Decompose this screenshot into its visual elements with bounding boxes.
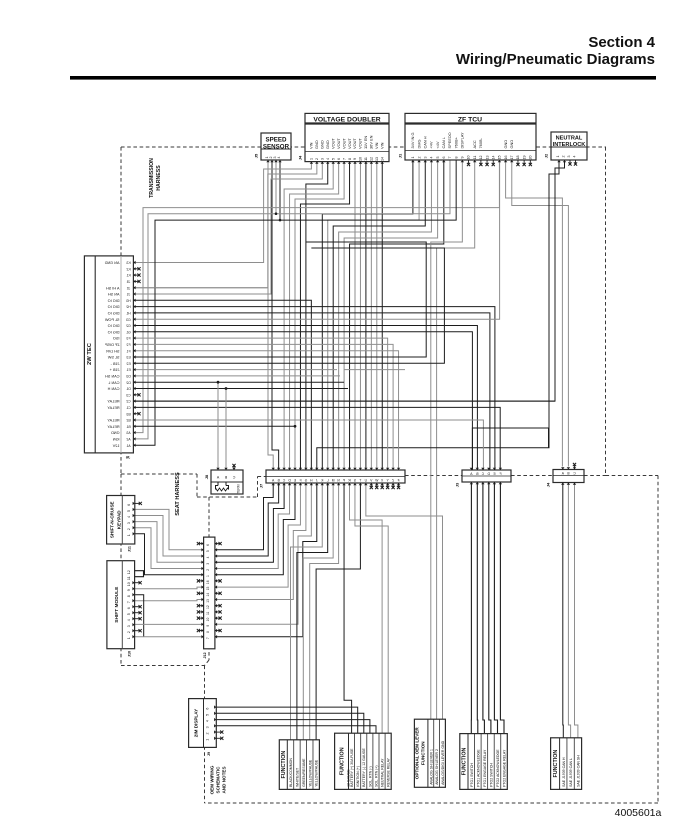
svg-text:8: 8 <box>206 631 210 633</box>
seat harness boundary top <box>121 473 197 475</box>
wire display pin3 to battery table col5 <box>216 726 376 733</box>
wire TCU pin9 wire to lever col1 <box>431 160 463 719</box>
terminated pin 6 on J10 <box>135 605 142 608</box>
wire 2WTEC D1 row wire CAN H <box>133 388 348 390</box>
svg-text:4: 4 <box>277 157 281 159</box>
wire J3 pin2 to PTO table col2 <box>476 482 479 734</box>
wire voltage doubler pin5 wire <box>284 162 333 471</box>
svg-text:Wiring/Pneumatic Diagrams: Wiring/Pneumatic Diagrams <box>456 51 655 68</box>
svg-text:SOL. RTN (+): SOL. RTN (+) <box>374 765 378 786</box>
wire shift module pin1 to J12 row7 <box>135 636 204 638</box>
wire J8 pin A feed <box>217 382 219 470</box>
terminated pin 19 on J1 <box>523 160 526 166</box>
connector J3 <box>455 470 512 487</box>
junction dot <box>294 425 297 428</box>
wire voltage doubler pin11 wire <box>365 162 367 471</box>
svg-text:1: 1 <box>411 157 415 159</box>
svg-text:C1: C1 <box>126 406 130 410</box>
svg-text:16: 16 <box>504 156 508 160</box>
svg-text:J6: J6 <box>125 455 130 460</box>
wire J7 pin13 to table1 col4 <box>310 483 339 740</box>
wire J4 pinC to J1939 table col3 <box>575 483 578 738</box>
transmission harness boundary right <box>605 147 607 476</box>
svg-text:3: 3 <box>206 726 210 728</box>
harness boundary through J11 <box>121 496 123 545</box>
svg-text:36V EN: 36V EN <box>369 135 374 149</box>
svg-text:AN SH: AN SH <box>108 293 120 297</box>
wire keypad pin5 to J12 <box>135 509 204 549</box>
wire display pin6 to battery table col2 <box>216 707 357 733</box>
svg-text:INTERLOCK: INTERLOCK <box>553 142 586 148</box>
oem boundary vertical upper <box>208 497 210 660</box>
svg-text:YELLOW/PAUSE: YELLOW/PAUSE <box>315 759 319 787</box>
svg-text:DMG: DMG <box>416 139 421 148</box>
svg-text:ANALOG SH LEVER 1: ANALOG SH LEVER 1 <box>429 749 433 785</box>
svg-text:10: 10 <box>127 582 131 586</box>
svg-text:15: 15 <box>498 156 502 160</box>
terminated pin 10 on J10 <box>135 581 142 584</box>
oem boundary vertical lower <box>204 666 206 804</box>
svg-text:12 GAUGE: 12 GAUGE <box>347 769 351 787</box>
svg-text:CAN SH: CAN SH <box>105 375 120 379</box>
svg-text:4005601a: 4005601a <box>615 807 662 819</box>
svg-text:RELAY: RELAY <box>107 400 120 404</box>
svg-text:K1: K1 <box>126 274 130 278</box>
wire voltage doubler pin8 wire <box>300 162 349 471</box>
svg-text:FUNCTION: FUNCTION <box>281 751 287 779</box>
terminated pin 6 right on J12 <box>215 542 222 545</box>
terminated pin 10 on J1 <box>467 160 470 166</box>
svg-text:DISPLAY: DISPLAY <box>460 132 465 149</box>
wire speed sensor pin1 to J7 pin1 <box>268 160 273 470</box>
wire 2WTEC D3 row wire <box>133 375 340 377</box>
svg-text:13: 13 <box>485 156 489 160</box>
svg-text:10: 10 <box>206 618 210 622</box>
svg-text:WHITE/SET: WHITE/SET <box>295 767 299 787</box>
svg-text:11V EN: 11V EN <box>363 136 368 149</box>
wire 2WTEC E1 row extension <box>344 369 405 371</box>
wire J7 pin12 to table1 col3 <box>303 483 333 740</box>
svg-text:RELAY: RELAY <box>107 406 120 410</box>
drawing number 4005601a <box>615 807 662 819</box>
wire 2WTEC H2 row wire to J3 pin5 <box>133 307 495 470</box>
svg-text:VIN: VIN <box>374 142 379 149</box>
svg-text:CAN L: CAN L <box>441 136 446 148</box>
wire 2WTEC H1 row wire to J3 pin4 <box>133 313 490 470</box>
transmission harness boundary top <box>121 146 606 148</box>
svg-text:ISO: ISO <box>113 337 120 341</box>
wire 2WTEC G2 row wire to J3 pin2 <box>133 326 477 471</box>
junction dot <box>225 387 228 390</box>
wire voltage doubler pin2 wire <box>133 162 316 288</box>
terminated pin on J7 <box>370 483 373 489</box>
wire voltage doubler pin12 wire <box>370 162 372 471</box>
terminated pin 12 left on J12 <box>197 604 204 607</box>
terminated pin 10 left on J12 <box>197 617 204 620</box>
svg-text:SH LVR: SH LVR <box>106 349 120 353</box>
terminated pin 6 on J11 <box>135 502 142 505</box>
wire voltage doubler pin7 wire <box>295 162 344 471</box>
svg-text:A3: A3 <box>126 431 130 435</box>
terminated pin 20 on J1 <box>529 160 532 166</box>
svg-text:9: 9 <box>127 589 131 591</box>
svg-text:GREEN/RESUME: GREEN/RESUME <box>302 758 306 787</box>
function table optional OEM lever <box>414 719 445 787</box>
svg-text:3: 3 <box>423 157 427 159</box>
harness boundary segment J7-J3 <box>405 475 462 477</box>
svg-text:VOLTAGE DOUBLER: VOLTAGE DOUBLER <box>313 117 380 124</box>
wire J7 pin1 to J12 row5 <box>215 483 273 550</box>
wire J4 pinA to J1939 table col1 <box>562 483 565 738</box>
svg-text:PTO1 ENGAGE RELAY: PTO1 ENGAGE RELAY <box>483 749 487 787</box>
svg-text:VOUT: VOUT <box>347 138 352 149</box>
wire 2WTEC C2 row wire <box>133 400 555 402</box>
svg-text:9: 9 <box>206 625 210 627</box>
svg-text:M: M <box>332 478 335 482</box>
svg-text:14: 14 <box>380 157 384 161</box>
wire J3 pin6 to PTO table col6 <box>500 482 504 734</box>
svg-text:6: 6 <box>127 607 131 609</box>
terminated pin C3 on J6 <box>133 393 140 396</box>
terminated pin 5 on J10 <box>135 611 142 614</box>
svg-text:BATTERY (-) 12 GAUGE: BATTERY (-) 12 GAUGE <box>362 748 366 787</box>
terminated pin 10 right on J12 <box>215 617 222 620</box>
svg-text:SAE J1939 CAN H: SAE J1939 CAN H <box>562 757 566 787</box>
wire shift module pin8 drop <box>135 595 144 637</box>
svg-text:H3: H3 <box>126 299 130 303</box>
svg-text:SHIFT-N-CRUISE: SHIFT-N-CRUISE <box>110 501 115 538</box>
wire J7 pin7 to J12 row13 <box>215 483 306 600</box>
svg-text:1: 1 <box>206 575 210 577</box>
header rule <box>70 76 656 80</box>
svg-text:G: G <box>304 478 307 482</box>
svg-text:SL POW: SL POW <box>104 318 119 322</box>
svg-text:DIG IO: DIG IO <box>108 312 120 316</box>
wire speed sensor pin4 drop <box>279 160 281 220</box>
transmission harness boundary right jog <box>606 475 659 477</box>
svg-text:REVERSE RELAY: REVERSE RELAY <box>387 757 391 787</box>
svg-text:J8: J8 <box>204 474 209 479</box>
svg-text:FUNCTION: FUNCTION <box>420 741 425 765</box>
svg-text:VOUT: VOUT <box>358 138 363 149</box>
svg-text:D2: D2 <box>126 381 130 385</box>
svg-text:5: 5 <box>436 157 440 159</box>
wire J7 pin8 to J12 row9 <box>215 483 311 624</box>
wire J7 pin6 to J12 row15 <box>215 483 301 587</box>
seat harness boundary step right <box>197 496 258 498</box>
svg-text:SPEEDO: SPEEDO <box>447 132 452 148</box>
junction dot <box>279 219 282 222</box>
svg-text:TERM: TERM <box>237 484 241 493</box>
wire 2WTEC G3 row wire <box>133 160 499 319</box>
svg-text:J4: J4 <box>298 155 303 160</box>
svg-text:2W TEC: 2W TEC <box>87 342 93 365</box>
svg-text:NEUTRAL: NEUTRAL <box>556 136 583 142</box>
svg-text:20: 20 <box>529 156 533 160</box>
svg-text:DIG IO: DIG IO <box>108 305 120 309</box>
terminated pin 16 right on J12 <box>215 579 222 582</box>
terminated pin on J7 <box>375 483 378 489</box>
svg-text:7: 7 <box>448 157 452 159</box>
wire TCU pin7 wire to 2WTEC A2 <box>133 160 450 439</box>
svg-text:11: 11 <box>364 157 368 161</box>
svg-text:#: # <box>397 478 399 482</box>
wire J7 pin5 to J12 row1 <box>215 483 295 575</box>
terminated pin 11 right on J12 <box>215 610 222 613</box>
wire 2WTEC F1 row wire <box>133 351 398 470</box>
svg-text:6: 6 <box>206 544 210 546</box>
svg-text:IGN: IGN <box>112 438 119 442</box>
svg-text:E2: E2 <box>126 362 130 366</box>
svg-text:4: 4 <box>573 156 577 158</box>
svg-text:SL SW: SL SW <box>107 356 119 360</box>
label OEM WIRING SCHEMATIC AND NOTES <box>210 765 227 794</box>
label TRANSMISSION HARNESS <box>149 158 162 198</box>
wire 2WTEC F2 row wire <box>133 344 393 470</box>
svg-text:16: 16 <box>206 580 210 584</box>
wire J7 pin9 to J12 row7 <box>215 483 317 637</box>
wire voltage doubler pin13 wire <box>376 162 378 471</box>
svg-text:4: 4 <box>326 158 330 160</box>
svg-text:J2: J2 <box>127 286 131 290</box>
svg-text:PTO2 ACKNOWLEDGE: PTO2 ACKNOWLEDGE <box>496 749 500 787</box>
wire TCU pin2 wire <box>328 160 419 470</box>
wire shift module pin7 to J12 row13 <box>135 600 204 601</box>
wire TCU pin11 wire to lever col2 <box>437 160 475 719</box>
svg-text:F1: F1 <box>126 349 130 353</box>
terminated pin J3 on J6 <box>133 280 140 283</box>
svg-text:14: 14 <box>491 156 495 160</box>
wire keypad pin4 to J12 <box>135 516 204 557</box>
svg-text:VOUT: VOUT <box>341 138 346 149</box>
svg-text:J11: J11 <box>128 546 132 552</box>
harness boundary segment right of J4 <box>584 475 606 477</box>
connector J11 shift-n-cruise keypad <box>107 496 135 553</box>
wire neutral interlock pin1 wire <box>317 160 559 470</box>
svg-text:F: F <box>299 478 301 482</box>
svg-text:11: 11 <box>206 611 210 615</box>
wire J3 pin5 to PTO table col5 <box>494 482 497 734</box>
svg-text:GND: GND <box>503 140 508 149</box>
svg-text:PTO1 ACKNOWLEDGE: PTO1 ACKNOWLEDGE <box>476 749 480 787</box>
svg-text:14: 14 <box>206 593 210 597</box>
svg-text:8: 8 <box>348 158 352 160</box>
svg-text:2: 2 <box>417 157 421 159</box>
terminated pin K1 on J6 <box>133 274 140 277</box>
wire 2WTEC G1 row wire to J3 pin1 <box>133 332 472 470</box>
svg-text:AN GND: AN GND <box>104 261 119 265</box>
terminated pin 14 right on J12 <box>215 592 222 595</box>
seat harness bottom boundary <box>121 665 205 667</box>
svg-text:1: 1 <box>206 739 210 741</box>
function table SAE J1939 <box>551 738 582 790</box>
svg-text:ACC: ACC <box>472 140 477 148</box>
wire 2WTEC E3 row wire <box>133 242 426 357</box>
svg-text:B1: B1 <box>126 425 130 429</box>
svg-text:OEM WIRING: OEM WIRING <box>210 765 215 794</box>
svg-text:ZF DISP: ZF DISP <box>104 343 119 347</box>
svg-text:1: 1 <box>310 158 314 160</box>
wire display pin4 to battery table col4 <box>216 720 370 734</box>
svg-text:2: 2 <box>127 631 131 633</box>
svg-text:VOUT: VOUT <box>352 138 357 149</box>
svg-text:J4: J4 <box>546 482 551 487</box>
wire TCU pin17 wire to J4 pin B <box>512 160 569 467</box>
harness boundary through J6 <box>120 256 122 453</box>
label SEAT HARNESS <box>175 472 181 516</box>
svg-text:12V: 12V <box>112 444 119 448</box>
svg-text:6: 6 <box>206 708 210 710</box>
terminated pin 8 left on J12 <box>197 629 204 632</box>
harness boundary segment J3-J4 <box>511 475 553 477</box>
terminated pin 6 left on J12 <box>197 542 204 545</box>
connector J4 small <box>546 470 585 488</box>
svg-text:5: 5 <box>206 550 210 552</box>
svg-text:J12: J12 <box>203 652 207 658</box>
terminated pin on J7 <box>386 483 389 489</box>
svg-text:5: 5 <box>127 510 131 512</box>
transmission harness boundary left <box>120 147 122 474</box>
svg-text:GND: GND <box>320 140 325 149</box>
wire J3 pin3 to PTO table col3 <box>483 482 485 734</box>
svg-text:2IM DISPLAY: 2IM DISPLAY <box>194 709 199 737</box>
svg-text:TRANSMISSION: TRANSMISSION <box>149 158 155 198</box>
svg-text:K2: K2 <box>126 267 130 271</box>
svg-text:H1: H1 <box>126 312 130 316</box>
svg-text:2: 2 <box>562 156 566 158</box>
svg-text:IGNITION (+): IGNITION (+) <box>356 766 360 787</box>
wire voltage doubler pin3 wire <box>133 162 322 295</box>
wire 2WTEC D2 row wire CAN L <box>133 381 344 383</box>
svg-text:C3: C3 <box>126 393 130 397</box>
seat harness left boundary <box>120 474 122 666</box>
wire J7 pin14 to battery col1 <box>344 483 352 733</box>
svg-text:VIN: VIN <box>379 142 384 149</box>
terminated pin 3 on J2 <box>568 160 571 166</box>
svg-text:E1: E1 <box>126 368 130 372</box>
svg-text:F3: F3 <box>126 337 130 341</box>
svg-text:12: 12 <box>127 570 131 574</box>
svg-text:F: F <box>499 472 501 476</box>
svg-text:OPTIONAL OEM LEVER: OPTIONAL OEM LEVER <box>415 727 420 780</box>
svg-text:CAN H: CAN H <box>107 387 119 391</box>
svg-text:12: 12 <box>479 156 483 160</box>
svg-text:6: 6 <box>442 157 446 159</box>
wire 2WTEC E1 row wire <box>133 369 337 371</box>
svg-text:VOUT: VOUT <box>330 138 335 149</box>
svg-text:L: L <box>327 478 329 482</box>
svg-text:3: 3 <box>567 156 571 158</box>
svg-text:3: 3 <box>321 158 325 160</box>
terminated pin on J7 <box>381 483 384 489</box>
terminated pin 18 on J1 <box>516 160 519 166</box>
svg-text:D3: D3 <box>126 375 130 379</box>
terminated pin 14 on J1 <box>492 160 495 166</box>
wire TCU pin15 wire to 2WTEC A3 <box>133 160 499 433</box>
svg-text:11: 11 <box>127 576 131 580</box>
svg-text:ZF TCU: ZF TCU <box>458 117 482 124</box>
svg-text:VOUT: VOUT <box>336 138 341 149</box>
terminated pin 1 on J9 <box>216 737 223 740</box>
svg-text:NEUTRAL RELAY: NEUTRAL RELAY <box>381 758 385 787</box>
svg-text:SAE J1939 CAN L: SAE J1939 CAN L <box>569 758 573 787</box>
wire J7 pin2 to J12 row4 <box>215 483 279 556</box>
wire shift module pin3 to J12 row9 <box>135 623 204 625</box>
svg-text:VIN: VIN <box>309 142 314 149</box>
svg-text:13: 13 <box>206 599 210 603</box>
svg-text:ANALOG SH LEVER 2: ANALOG SH LEVER 2 <box>435 749 439 785</box>
connector J6 2W TEC <box>84 256 133 460</box>
svg-text:GND: GND <box>325 140 330 149</box>
terminated pin 12 on J1 <box>479 160 482 166</box>
svg-text:SOL. RTN (-): SOL. RTN (-) <box>368 766 372 787</box>
svg-text:CAN H: CAN H <box>422 136 427 148</box>
wire J7 pin11 to table1 col2 <box>297 483 328 740</box>
svg-text:G3: G3 <box>126 318 131 322</box>
wire voltage doubler pin6 wire <box>290 162 339 471</box>
terminated pin on J7 <box>397 483 400 489</box>
terminated pin B3 on J6 <box>133 412 140 415</box>
svg-text:4: 4 <box>127 619 131 621</box>
svg-text:10: 10 <box>467 156 471 160</box>
svg-text:3: 3 <box>206 563 210 565</box>
seat harness boundary step up <box>257 477 259 498</box>
wire keypad pin3 to J12 <box>135 522 204 563</box>
svg-text:RELAY: RELAY <box>107 425 120 429</box>
svg-text:J1B -: J1B - <box>110 362 120 366</box>
wire voltage doubler pin14 wire <box>381 162 383 471</box>
svg-text:CAN L: CAN L <box>108 381 119 385</box>
wire bracket wire J3A to J2 riser <box>472 428 548 470</box>
connector J10 shift module <box>107 561 135 657</box>
terminated pin 14 left on J12 <box>197 592 204 595</box>
svg-text:12: 12 <box>206 605 210 609</box>
svg-text:9: 9 <box>353 158 357 160</box>
svg-text:GND: GND <box>314 140 319 149</box>
function table cruise control <box>279 740 319 790</box>
svg-text:11: 11 <box>473 156 477 160</box>
svg-text:4: 4 <box>206 556 210 558</box>
svg-text:J5: J5 <box>254 153 259 158</box>
svg-text:J1B +: J1B + <box>109 368 120 372</box>
svg-text:SAE J1939 CAN SH: SAE J1939 CAN SH <box>576 755 580 787</box>
svg-text:5: 5 <box>206 714 210 716</box>
svg-text:4: 4 <box>430 157 434 159</box>
svg-text:SHIFT MODULE: SHIFT MODULE <box>114 586 120 623</box>
wire speed sensor pin3 drop <box>275 160 277 214</box>
svg-text:Section 4: Section 4 <box>588 34 655 51</box>
terminated pin on J7 <box>392 483 395 489</box>
page title Section 4 <box>588 34 655 51</box>
connector J1 ZF TCU <box>398 113 537 160</box>
connector J5 speed sensor <box>254 133 292 160</box>
svg-text:DIG IO: DIG IO <box>108 324 120 328</box>
wire 2WTEC F3 row wire <box>133 338 387 470</box>
svg-text:SPEED: SPEED <box>266 137 288 144</box>
wire J7 pin15 to battery col6 <box>350 483 383 733</box>
svg-text:H2: H2 <box>126 305 130 309</box>
connector J4 voltage doubler <box>298 113 390 161</box>
wire 2WTEC H3 row wire <box>133 300 311 470</box>
terminated pin K2 on J6 <box>133 267 140 270</box>
connector J2 neutral interlock <box>544 132 588 160</box>
wire TCU pin1 wire <box>322 160 413 470</box>
svg-text:SENSOR: SENSOR <box>263 144 290 151</box>
svg-text:760B+: 760B+ <box>453 136 458 148</box>
svg-text:4: 4 <box>206 720 210 722</box>
connector pin arrowheads <box>132 160 576 740</box>
svg-text:J3: J3 <box>127 280 131 284</box>
